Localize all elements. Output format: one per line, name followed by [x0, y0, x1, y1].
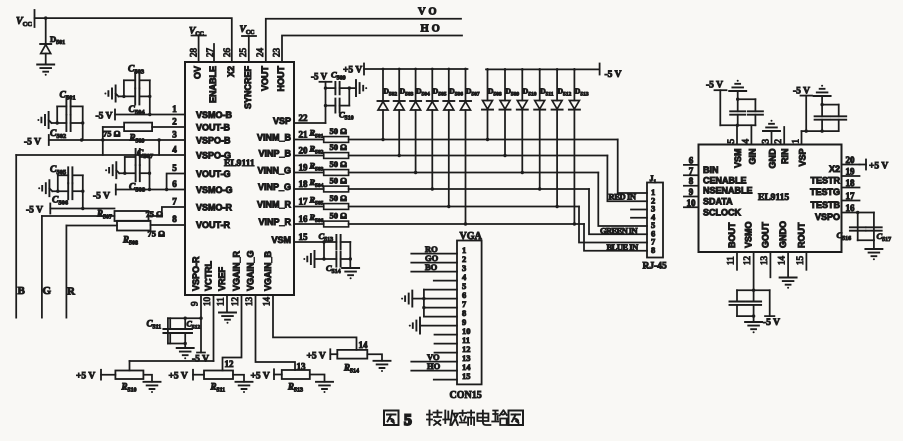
node GREEN IN label [600, 226, 638, 236]
svg-text:VCTRL: VCTRL [204, 261, 214, 291]
svg-text:VSP: VSP [273, 116, 291, 126]
capacitor C514 [324, 252, 350, 276]
capacitor C511 [147, 318, 178, 343]
diode D512 [552, 69, 572, 206]
svg-text:VREF: VREF [217, 266, 227, 291]
svg-text:VOUT-B: VOUT-B [196, 123, 231, 133]
wire pin 15 VSM node [294, 240, 326, 260]
svg-text:19: 19 [846, 167, 856, 177]
pin 28 stub with Vcc terminal [189, 27, 206, 63]
svg-text:24: 24 [255, 48, 265, 58]
svg-text:27: 27 [205, 48, 215, 58]
wire BO into VGA pin 3 [411, 262, 457, 272]
svg-text:VSMO: VSMO [744, 221, 754, 248]
svg-text:HO: HO [427, 361, 441, 371]
svg-text:R: R [67, 286, 76, 298]
wire pin 11 VREF to ground [219, 295, 236, 324]
node D511 junctions [538, 68, 541, 191]
capacitor C512 [178, 318, 200, 343]
svg-text:VGAIN_G: VGAIN_G [246, 250, 256, 291]
svg-text:ROUT: ROUT [796, 222, 806, 248]
wire C505/C506 rails [56, 175, 84, 208]
svg-text:5: 5 [172, 163, 177, 173]
svg-text:21: 21 [299, 130, 309, 140]
ground below C511/C512 [177, 348, 194, 359]
ground below C514 [342, 268, 359, 279]
resistor R504 50ohm on pin 18 [294, 176, 349, 192]
diode D506 [443, 69, 463, 207]
svg-text:6: 6 [689, 155, 694, 165]
svg-text:6: 6 [172, 179, 177, 189]
diode D503 [394, 69, 414, 156]
capacitor cluster B cap 2 [822, 105, 846, 132]
svg-text:50 Ω: 50 Ω [330, 211, 348, 221]
svg-text:14: 14 [359, 340, 369, 350]
node D504 junctions [414, 68, 417, 175]
resistor R506 50ohm on pin 16 [294, 211, 349, 227]
ground at VGA pins 5-8 [401, 291, 424, 307]
pin names VSPO-R..VGAIN_B bottom EL9111 [191, 250, 273, 291]
wire VO into VGA pin 13 [411, 352, 457, 362]
svg-text:HOUT: HOUT [276, 66, 286, 92]
node D502 junctions [381, 68, 384, 142]
svg-text:NSENABLE: NSENABLE [703, 186, 753, 196]
ground at C501/C502 [37, 112, 51, 128]
svg-text:VOUT-R: VOUT-R [196, 220, 231, 230]
svg-text:8: 8 [689, 176, 694, 186]
pin numbers 20-16 with stub lines right EL9115 [842, 155, 860, 213]
svg-text:-5 V: -5 V [192, 355, 209, 365]
wire GOUT pin 13 stub [769, 252, 771, 277]
svg-text:-5 V: -5 V [26, 206, 43, 216]
diode D507 [460, 69, 480, 224]
wire VGA pin 4 stub [434, 280, 457, 282]
svg-text:VINP_B: VINP_B [258, 149, 291, 159]
wire pin 20 line to RJ-45 [349, 156, 647, 202]
node D507 junctions [464, 68, 467, 226]
wire VGA pin 12 stub [435, 352, 458, 354]
svg-text:4: 4 [172, 145, 177, 155]
svg-text:15: 15 [462, 371, 471, 381]
svg-text:SCLOCK: SCLOCK [703, 207, 742, 217]
resistor R501 50ohm on pin 21 [294, 126, 349, 142]
svg-text:12: 12 [225, 359, 235, 369]
resistor R513 trimmer [282, 370, 310, 394]
node BLUE IN label [607, 242, 640, 252]
ground at pin 15 cluster [303, 251, 314, 267]
node D513 junctions [573, 68, 576, 226]
svg-text:EL9115: EL9115 [758, 193, 789, 203]
wire pin 10 VCTRL to R510 wiper [130, 295, 214, 371]
svg-text:1: 1 [791, 139, 801, 144]
svg-text:+5 V: +5 V [76, 372, 95, 382]
ground at C503/C504 [104, 86, 118, 102]
svg-text:GOUT: GOUT [760, 221, 770, 248]
svg-text:X2: X2 [829, 164, 840, 174]
wire pin 14 VGAIN_B to R514 wiper [273, 295, 368, 350]
svg-text:8: 8 [651, 245, 655, 255]
wire C515 bottom rail [737, 314, 755, 321]
svg-text:RIN: RIN [780, 149, 790, 165]
ground below C515 [745, 322, 762, 333]
resistor R514 trimmer [337, 350, 367, 375]
wire R507 to pin 7 [149, 207, 186, 216]
svg-text:10: 10 [687, 198, 697, 208]
svg-text:+5 V: +5 V [169, 372, 188, 382]
wire C501/C502 rails [56, 106, 85, 140]
wire GNDO pin 14 to ground [780, 252, 797, 289]
connector CON15 VGA [450, 231, 483, 401]
wire Vcc rail to EL9111 pin 26 [35, 18, 232, 62]
ground at R513 [310, 375, 333, 394]
svg-text:OV: OV [193, 66, 203, 79]
svg-text:EL9111: EL9111 [224, 159, 255, 169]
svg-text:VGA: VGA [460, 231, 483, 242]
wire R input to R508 [66, 226, 117, 318]
svg-text:7: 7 [689, 166, 694, 176]
wire B input line [16, 155, 25, 318]
pin names VSP..VSM right side EL9111 [257, 116, 292, 245]
svg-text:VSPO-G: VSPO-G [196, 151, 231, 161]
svg-text:18: 18 [846, 178, 856, 188]
wire GND pin 3 to ground [763, 120, 780, 145]
capacitor C505 [50, 165, 83, 183]
svg-text:50 Ω: 50 Ω [330, 176, 348, 186]
capacitor C508 [119, 165, 149, 193]
ground at C509 [356, 80, 367, 96]
wire cluster B bottom rail to pin 1 VSP [802, 129, 839, 144]
pin numbers 11-15 bottom EL9115 [726, 256, 805, 266]
svg-text:VSM: VSM [733, 149, 743, 169]
capacitor cluster A cap 2 [736, 98, 763, 126]
wire -5V to R507 on pin 7 [26, 204, 115, 216]
svg-text:1: 1 [172, 104, 177, 114]
svg-text:16: 16 [299, 214, 309, 224]
svg-text:20: 20 [299, 146, 309, 156]
resistor R505 50ohm on pin 17 [294, 193, 349, 209]
svg-text:50 Ω: 50 Ω [330, 159, 348, 169]
wire VGA pin 15 stub [434, 379, 457, 381]
node D509 junctions [503, 68, 506, 157]
resistor R507 75ohm [96, 209, 163, 222]
wire pin 13 VGAIN_G to R513 wiper [256, 295, 307, 372]
diode D508 [482, 69, 502, 139]
diode D511 [534, 69, 554, 189]
svg-text:50 Ω: 50 Ω [330, 193, 348, 203]
resistor R511 trimmer [204, 371, 233, 394]
svg-text:8: 8 [172, 214, 177, 224]
pin names OV ENABLE X2 SYNCREF VOUT HOUT [193, 66, 286, 110]
svg-text:RED IN: RED IN [609, 192, 637, 202]
svg-text:TESTR: TESTR [810, 176, 840, 186]
pin names VSMO-B..VOUT-R left side EL9111 [196, 110, 233, 230]
svg-text:5: 5 [404, 412, 412, 429]
node D506 junctions [447, 68, 450, 209]
svg-text:22: 22 [299, 113, 309, 123]
capacitor C516 [837, 227, 866, 242]
wire GO into VGA pin 2 [411, 253, 457, 263]
power +5V at R511 [169, 370, 205, 382]
pin names BOUT VSMO GOUT GNDO ROUT bottom EL9115 [727, 221, 806, 248]
svg-text:VSPO-B: VSPO-B [196, 136, 231, 146]
wire -5V clamp rail [486, 68, 600, 70]
svg-text:75 Ω: 75 Ω [148, 229, 166, 239]
svg-text:VSPO-R: VSPO-R [191, 256, 201, 291]
svg-text:TESTB: TESTB [810, 200, 840, 210]
svg-text:14: 14 [262, 297, 272, 307]
wire R509 to pin4 line riser [102, 127, 104, 155]
svg-text:+5 V: +5 V [343, 66, 362, 76]
svg-text:9: 9 [190, 301, 200, 306]
wire pin 5 VOUT-G elbow to pin 6 line [167, 174, 185, 190]
wire VGA pin 10 stub [435, 334, 458, 336]
node D503 junctions [398, 68, 401, 158]
diode D501 [40, 18, 65, 64]
svg-text:TESTG: TESTG [810, 187, 840, 197]
wire C513/C514 right rail [349, 242, 352, 268]
svg-text:28: 28 [189, 48, 199, 58]
wire +5V clamp rail [364, 68, 468, 70]
wire pin 4 VSPO-G line to B input [16, 140, 185, 155]
ground at VGA pin 9 [409, 318, 420, 334]
wire pin 18 line to RJ-45 [349, 189, 647, 234]
node RED IN label [609, 192, 637, 202]
svg-text:13: 13 [244, 297, 254, 307]
svg-text:-5 V: -5 V [706, 81, 723, 91]
wire pin 19 line to RJ-45 [349, 173, 647, 227]
power +5V at R510 [76, 370, 115, 382]
svg-text:15: 15 [299, 232, 309, 242]
wire J1 pin 3 stub [631, 209, 647, 211]
svg-text:13: 13 [759, 256, 769, 266]
svg-text:+5 V: +5 V [869, 162, 888, 172]
capacitor C506 [52, 183, 83, 206]
wire pin 3 VSPO-B to -5V [24, 135, 185, 148]
svg-text:7: 7 [172, 197, 177, 207]
wire G input to R507 [42, 216, 115, 318]
resistor R510 trimmer [115, 371, 143, 394]
svg-text:12: 12 [742, 256, 752, 265]
node D510 junctions [521, 68, 524, 174]
node D512 junctions [555, 68, 558, 208]
svg-text:G: G [43, 285, 52, 297]
power +5V at R513 [251, 369, 282, 381]
resistor R509 75ohm on pin 2 [103, 123, 185, 145]
diode D504 [410, 69, 430, 173]
svg-text:VINP_G: VINP_G [258, 182, 291, 192]
wire C516/C517 bottom rail [858, 240, 874, 248]
power Vcc terminal top-left [16, 10, 35, 28]
svg-text:GNDO: GNDO [778, 221, 788, 248]
wire HO into VGA pin 14 [411, 361, 457, 371]
svg-text:11: 11 [216, 297, 226, 306]
ground below C517 [865, 249, 882, 260]
diode D509 [500, 69, 520, 155]
wire RIN pin 2 stub [783, 127, 785, 145]
wire HO net from pin 23 [282, 24, 462, 63]
svg-text:VOUT: VOUT [260, 66, 270, 92]
svg-text:VGAIN_B: VGAIN_B [263, 250, 273, 291]
wire pin 6 VSMO-G to -5V [93, 185, 185, 202]
pin numbers 9-14 bottom EL9111 [190, 297, 272, 307]
svg-text:-5 V: -5 V [605, 70, 622, 80]
svg-text:15: 15 [795, 256, 805, 266]
svg-text:3: 3 [761, 139, 771, 144]
svg-text:17: 17 [846, 191, 856, 201]
node D505 junctions [431, 68, 434, 191]
wire pin 12 VGAIN_R to R511 wiper [223, 295, 242, 371]
svg-text:VO: VO [418, 7, 440, 18]
pin names VSM GIN GND RIN VSP top EL9115 [733, 148, 808, 169]
ground at C505/C506 [38, 180, 52, 196]
svg-text:VINM_B: VINM_B [257, 133, 292, 143]
svg-text:RJ-45: RJ-45 [643, 262, 668, 272]
svg-text:VSMO-G: VSMO-G [196, 185, 233, 195]
op-amp U2 EL9115 body [699, 145, 842, 253]
ground at R514 [367, 354, 390, 372]
diode D510 [517, 69, 537, 172]
pin names BIN..SCLOCK left EL9115 [703, 165, 753, 217]
svg-text:20: 20 [846, 155, 856, 165]
diode D513 [569, 69, 589, 224]
wire VSMO pin 12 to C515 cluster [737, 252, 770, 292]
capacitor cluster A cap 1 [730, 99, 745, 125]
svg-text:BO: BO [425, 262, 438, 272]
svg-text:11: 11 [726, 256, 736, 265]
wire BOUT pin 11 stub [736, 252, 738, 270]
power +5V at EL9115 X2 pin 20 [860, 160, 889, 172]
wire J1 pin 4 stub [631, 217, 647, 219]
svg-text:-5 V: -5 V [24, 138, 41, 148]
pin numbers 1-8 left side EL9111 [172, 104, 177, 224]
svg-text:SYNCREF: SYNCREF [243, 66, 253, 110]
svg-text:-5 V: -5 V [311, 72, 328, 82]
power -5V at C515 right rail [763, 290, 780, 328]
svg-text:3: 3 [172, 130, 177, 140]
svg-text:CON15: CON15 [450, 390, 482, 401]
svg-text:+5 V: +5 V [307, 352, 326, 362]
capacitor C504 [119, 88, 150, 116]
svg-text:VGAIN_R: VGAIN_R [232, 250, 242, 291]
resistor R503 50ohm on pin 19 [294, 159, 349, 175]
svg-text:VSMO-B: VSMO-B [196, 110, 233, 120]
svg-text:-5 V: -5 V [93, 192, 110, 202]
capacitor C510 [326, 99, 354, 122]
svg-text:SDATA: SDATA [703, 197, 733, 207]
svg-text:9: 9 [689, 187, 694, 197]
capacitor C501 [57, 91, 82, 115]
ground above cluster A [729, 80, 746, 99]
svg-text:75 Ω: 75 Ω [103, 129, 121, 139]
svg-text:VINN_G: VINN_G [257, 166, 291, 176]
resistor R508 75ohm on pin 8 [117, 221, 185, 247]
svg-text:VINM_R: VINM_R [257, 200, 292, 210]
wire VGA pin 11 stub [435, 343, 458, 345]
svg-text:BOUT: BOUT [727, 222, 737, 248]
ground above cluster B [814, 85, 831, 105]
wire C511/C512 loop [168, 317, 201, 349]
capacitor C502 [50, 115, 83, 140]
wire pin 17 line to RJ-45 [349, 207, 647, 243]
pin numbers 5-1 top EL9115 [726, 139, 801, 144]
ground at R510 [143, 375, 160, 393]
svg-text:-5 V: -5 V [96, 112, 113, 122]
svg-text:VSM: VSM [271, 235, 291, 245]
svg-text:ENABLE: ENABLE [208, 66, 218, 103]
pin numbers 22-15 right side EL9111 [299, 113, 309, 242]
power -5V terminal for diode rail [600, 64, 622, 81]
svg-text:50 Ω: 50 Ω [330, 142, 348, 152]
pin 25 stub with Vcc terminal [240, 25, 257, 62]
op-amp U1 EL9111 video amplifier IC body [185, 62, 294, 295]
wire pin 21 line to RJ-45 [349, 140, 647, 194]
wire VGA pin 9 to ground [420, 325, 457, 327]
capacitor C503 [124, 65, 150, 89]
svg-text:10: 10 [202, 297, 212, 307]
svg-text:14: 14 [777, 256, 787, 266]
svg-text:26: 26 [222, 48, 232, 58]
svg-text:HO: HO [421, 24, 443, 35]
svg-text:12: 12 [230, 297, 240, 306]
power +5V at R514 [307, 349, 338, 361]
svg-text:VINP_R: VINP_R [258, 217, 291, 227]
ground at R511 [233, 375, 253, 393]
svg-text:VOUT-G: VOUT-G [196, 169, 231, 179]
svg-text:BLUE IN: BLUE IN [607, 242, 640, 252]
svg-text:-5 V: -5 V [763, 318, 780, 328]
svg-text:19: 19 [299, 163, 309, 173]
capacitor C507 [125, 149, 154, 165]
diode D505 [427, 69, 447, 189]
capacitor C515 cap 2 [746, 290, 761, 316]
wire pin 1 VSMO-B to -5V [96, 110, 186, 122]
node D508 junctions [486, 68, 489, 141]
svg-text:25: 25 [238, 48, 248, 58]
wire pin 16 VSPO node [856, 211, 859, 241]
svg-text:17: 17 [299, 197, 309, 207]
wire pin 22 VSP to -5V [294, 72, 332, 124]
wire ROUT pin 15 stub [805, 252, 807, 270]
wire VO net from pin 24 [266, 7, 461, 63]
svg-text:2: 2 [773, 139, 783, 144]
svg-text:VSMO-R: VSMO-R [196, 203, 233, 213]
diode D502 [378, 69, 398, 140]
svg-text:GND: GND [768, 148, 778, 169]
pin numbers 6-10 with stub lines left EL9115 [684, 155, 699, 207]
svg-text:B: B [18, 285, 26, 297]
resistor R502 50ohm on pin 20 [294, 142, 349, 158]
ground at C507/C508 [105, 162, 119, 178]
power +5V terminal for diode rail [343, 64, 364, 76]
wire C503/C504 rails [122, 80, 151, 114]
svg-text:+5 V: +5 V [251, 372, 270, 382]
svg-text:75 Ω: 75 Ω [146, 209, 164, 219]
wire C510 to C509 right node [348, 86, 351, 105]
wire cluster A bottom rail to pins 5 and 4 [720, 124, 755, 145]
node Vcc/D501 junction [44, 16, 47, 19]
svg-text:VSPO: VSPO [815, 212, 840, 222]
wire pin 9 VSPO-R to -5V [192, 295, 209, 365]
caption: figure 5 receiver circuit [384, 411, 523, 430]
capacitor cluster B cap 1 [815, 103, 830, 131]
svg-text:50 Ω: 50 Ω [330, 126, 348, 136]
svg-text:VSP: VSP [798, 149, 808, 167]
capacitor C513 [319, 231, 351, 249]
svg-text:23: 23 [272, 48, 282, 58]
svg-text:X2: X2 [226, 66, 236, 77]
power -5V terminal at C515b cluster [793, 87, 812, 132]
svg-text:16: 16 [846, 203, 856, 213]
